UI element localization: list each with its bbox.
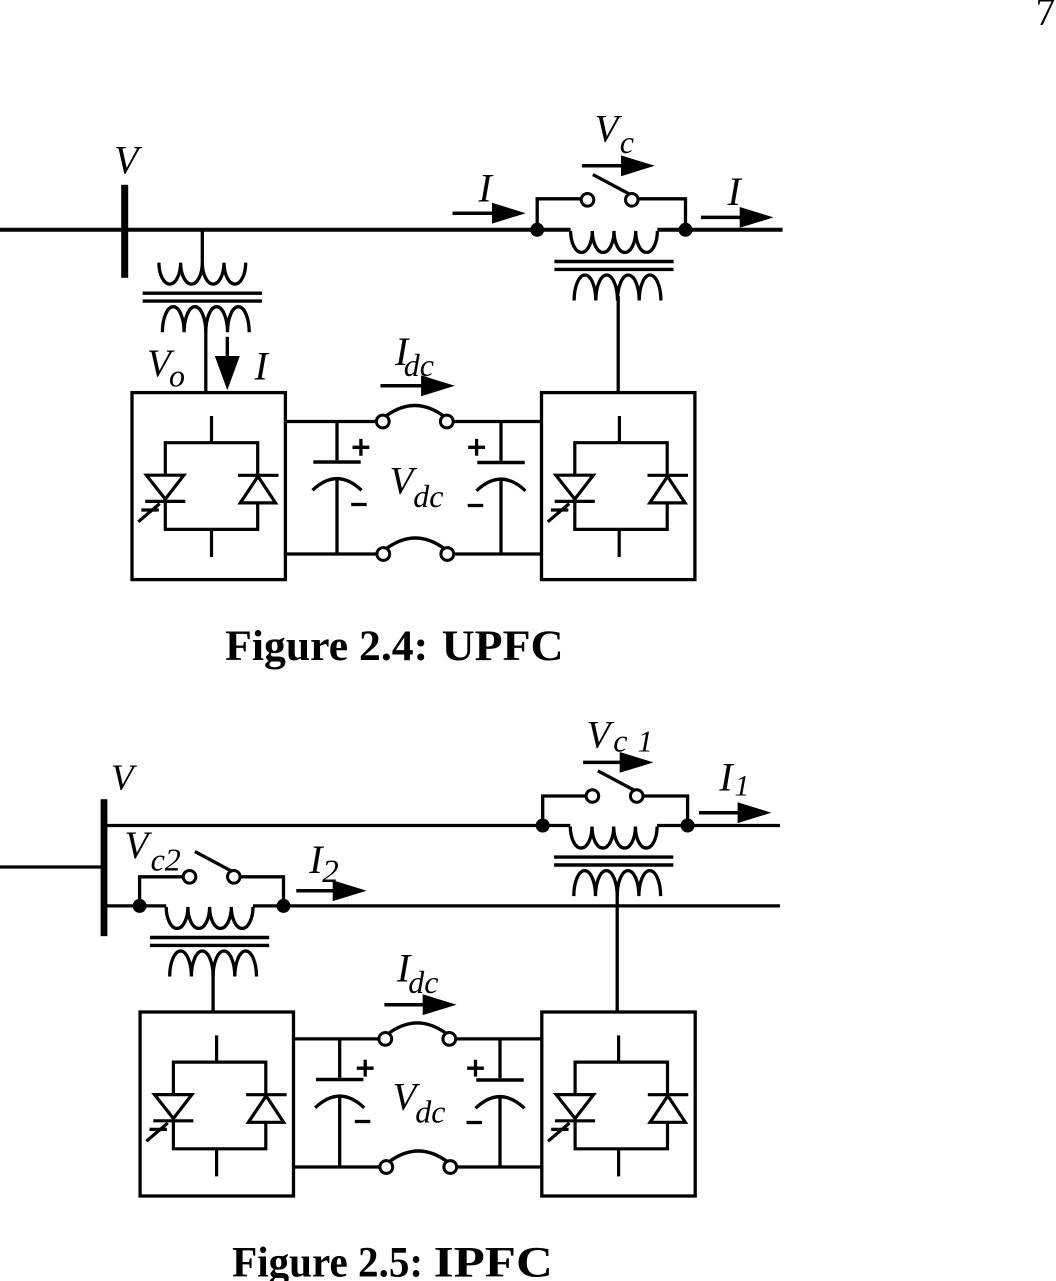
capacitor C4 — [498, 1039, 501, 1167]
svg-text:1: 1 — [638, 724, 654, 759]
wire T3 secondary to converter 3 — [211, 974, 214, 1012]
bypass switch S3 — [586, 771, 643, 803]
svg-text:Figure 2.4:: Figure 2.4: — [225, 623, 428, 670]
bus bar V — [121, 185, 128, 278]
svg-text:V: V — [595, 108, 623, 151]
dc link reactor bottom — [377, 538, 454, 560]
wire line 2 fig2.5 left segment — [104, 904, 166, 907]
svg-text:I: I — [478, 165, 494, 210]
label plus C3 — [357, 1060, 374, 1077]
svg-text:dc: dc — [415, 1093, 445, 1129]
svg-text:o: o — [169, 358, 185, 394]
converter U1 internals (thyristor + diode) — [138, 443, 278, 530]
label minus C2 — [468, 504, 484, 507]
bypass switch S2 — [183, 852, 240, 884]
wire feeder into bus — [0, 865, 104, 868]
dc bus bottom rail — [285, 552, 541, 555]
label minus C4 — [467, 1121, 483, 1124]
wire T4 secondary to converter 4 — [616, 892, 619, 1013]
wire shunt tap — [201, 230, 204, 264]
converter U4 stubs — [617, 1035, 620, 1176]
svg-text:UPFC: UPFC — [442, 623, 564, 670]
converter U4 box — [542, 1012, 695, 1196]
shunt transformer T1 — [143, 263, 262, 333]
converter U3 internals (thyristor + diode) — [146, 1062, 286, 1149]
svg-text:I: I — [718, 755, 734, 800]
converter U2 box — [542, 393, 695, 580]
bypass loop wires T2 — [537, 199, 685, 230]
svg-text:V: V — [125, 824, 153, 867]
node dot left of T3 — [133, 899, 147, 913]
capacitor C3 — [338, 1039, 341, 1167]
arrow Vc — [582, 164, 628, 168]
label minus C3 — [355, 1120, 371, 1123]
node dot left of T4 — [536, 819, 550, 833]
label plus C2 — [468, 439, 485, 456]
node dot left of T2 — [530, 223, 544, 237]
svg-text:IPFC: IPFC — [434, 1239, 553, 1281]
arrow I into converter 1 — [226, 337, 229, 358]
arrow I1 — [699, 811, 744, 815]
bypass loop wires T3 — [140, 877, 284, 906]
series transformer T3 (Vc2) — [150, 907, 269, 977]
svg-text:V: V — [587, 714, 615, 757]
svg-text:dc: dc — [413, 478, 443, 514]
svg-text:c2: c2 — [151, 841, 181, 877]
arrow I line1 right — [701, 216, 746, 220]
wire line 2 fig2.5 right segment — [253, 904, 780, 907]
node dot right of T4 — [681, 819, 695, 833]
series transformer T2 — [554, 231, 673, 301]
arrow Vc1 — [583, 761, 627, 765]
wire line 1 left segment — [0, 228, 571, 232]
arrow I2 — [296, 889, 340, 893]
node dot right of T2 — [679, 223, 693, 237]
series transformer T4 (Vc1) — [554, 827, 673, 897]
dc bus bottom rail fig2.5 — [294, 1165, 542, 1168]
bypass loop wires T4 — [543, 796, 688, 826]
converter U4 internals (thyristor + diode) — [548, 1062, 688, 1149]
svg-text:Figure 2.5:: Figure 2.5: — [232, 1239, 423, 1281]
converter U1 stubs — [210, 416, 213, 557]
converter U1 box — [132, 393, 285, 580]
svg-text:I: I — [254, 343, 270, 388]
converter U2 stubs — [618, 416, 621, 557]
wire line 1 fig2.5 right segment — [657, 824, 780, 827]
bus bar V fig2.5 — [101, 799, 108, 936]
arrow I line1 left — [453, 211, 499, 215]
wire line 1 right segment — [657, 228, 782, 232]
wire T2 secondary to converter 2 — [617, 296, 620, 393]
svg-text:1: 1 — [735, 769, 750, 802]
converter U3 stubs — [215, 1035, 218, 1176]
dc bus top rail fig2.5 — [294, 1037, 542, 1040]
capacitor C2 — [499, 422, 502, 555]
capacitor C1 — [335, 422, 338, 555]
dc link reactor top — [376, 406, 453, 428]
node dot right of T3 — [277, 899, 291, 913]
converter U2 internals (thyristor + diode) — [548, 443, 688, 530]
wire line 1 fig2.5 left segment — [104, 824, 570, 827]
label plus C1 — [353, 439, 370, 456]
arrow Idc fig2.5 — [384, 1003, 432, 1007]
dc link reactor top fig2.5 — [379, 1023, 456, 1045]
svg-text:dc: dc — [404, 347, 434, 383]
wire T1 secondary to converter 1 — [204, 330, 207, 393]
label plus C4 — [467, 1060, 484, 1077]
dc bus top rail — [285, 420, 541, 423]
converter U3 box — [140, 1012, 293, 1196]
svg-text:c: c — [620, 124, 634, 160]
arrow Idc — [380, 384, 430, 388]
bypass switch S1 — [581, 175, 638, 207]
svg-text:7: 7 — [1036, 0, 1056, 34]
label minus C1 — [351, 503, 367, 506]
dc link reactor bottom fig2.5 — [380, 1151, 457, 1173]
